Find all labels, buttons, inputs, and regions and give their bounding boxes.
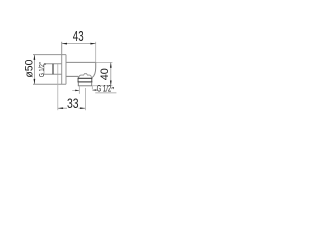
outlet cylinder left — [77, 82, 79, 86]
dimension line 33 left segment — [58, 107, 67, 109]
svg-text:43: 43 — [73, 29, 84, 45]
G 1/2 thread dim tail left — [72, 89, 79, 91]
svg-text:ø50: ø50 — [24, 60, 36, 78]
arrow 40 top — [110, 62, 112, 67]
plate front edge — [65, 55, 67, 85]
G 1/2 thread dim tail right — [92, 89, 96, 91]
arrow ø50 top — [34, 55, 36, 60]
outlet cylinder right — [91, 82, 93, 86]
dimension line 40 — [110, 62, 112, 85]
outlet ring left edge — [77, 78, 79, 83]
dimension line ø50 — [33, 55, 35, 85]
G 1/2 label underline — [95, 92, 116, 94]
svg-text:G 1/2: G 1/2 — [97, 84, 112, 94]
outlet ring bottom edge — [78, 81, 93, 83]
arrow 40 bottom — [110, 81, 112, 86]
arrow ø50 bottom — [34, 79, 36, 84]
inlet stub top — [44, 63, 62, 65]
wall plate top edge + ø50 extension — [33, 54, 66, 56]
outlet bottom face — [78, 85, 92, 87]
arrow 43 left — [62, 43, 67, 45]
body tube bottom edge — [66, 75, 78, 77]
dimension line 33 right segment — [79, 107, 86, 109]
outlet dome shoulder — [79, 74, 92, 78]
arrow 43 right — [90, 43, 95, 45]
extension line body top to 40 dim — [96, 61, 113, 63]
shoulder connector — [77, 76, 79, 78]
G 1/2 thread arrow left — [75, 90, 79, 92]
extension line outlet bottom to 40 dim — [92, 85, 112, 87]
extension line outlet axis down to 33 dim — [84, 88, 86, 110]
wall plate front edge + 43 dim extension — [61, 42, 63, 84]
extension line wall reference down to 33 dim — [57, 64, 59, 110]
svg-text:33: 33 — [67, 95, 79, 111]
extension line 43 dim right — [95, 42, 97, 63]
outlet ring right edge — [91, 78, 93, 83]
inlet stub bottom — [44, 73, 62, 75]
arrow 33 left — [58, 107, 63, 109]
inlet stub corner tick — [44, 63, 46, 65]
dimension line 43 — [62, 43, 96, 45]
svg-text:″: ″ — [111, 85, 114, 95]
extension line outlet thread left — [78, 86, 80, 94]
G 1/2 thread arrow right — [92, 89, 96, 91]
outlet ring top edge — [78, 77, 93, 79]
body tube top edge — [66, 61, 96, 63]
extension line outlet thread right — [91, 86, 93, 89]
svg-text:G 1/2″: G 1/2″ — [39, 62, 46, 77]
inlet stub thread line — [52, 64, 54, 74]
inlet stub end face — [43, 64, 45, 74]
arrow 33 right — [80, 107, 85, 109]
svg-text:40: 40 — [99, 68, 111, 80]
wall plate bottom edge + ø50 extension — [33, 83, 66, 85]
body right face with bend curve — [92, 62, 96, 77]
